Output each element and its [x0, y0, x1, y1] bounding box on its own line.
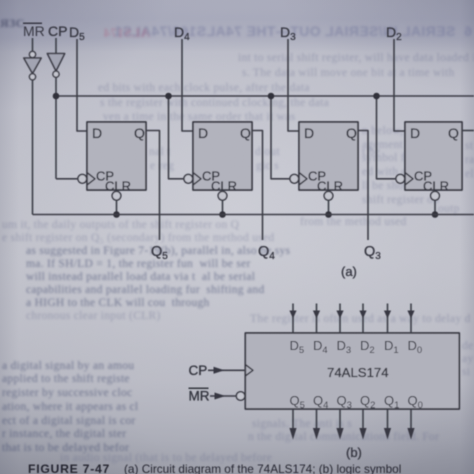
svg-text:D: D	[198, 125, 208, 141]
wire CP tap to FF2	[169, 96, 184, 179]
wire CP bus (horizontal)	[56, 95, 474, 97]
wire CP tap to FF3	[271, 96, 290, 179]
pin Q0 output arrow	[407, 409, 414, 440]
flip-flop FF3 body	[299, 122, 358, 194]
svg-text:(b): (b)	[346, 445, 362, 460]
wire D4 to FF2 D	[182, 39, 193, 131]
svg-text:D: D	[92, 125, 102, 141]
inverter U1 triangle	[24, 58, 41, 74]
pin D3 input arrow	[336, 304, 343, 334]
inverter U2 output bubble	[53, 71, 59, 77]
pin D1 input arrow	[384, 304, 391, 334]
node MR input label	[23, 23, 45, 40]
FF3 clock bubble	[290, 174, 299, 183]
pin Q1 output arrow	[384, 409, 391, 440]
junction FF4 CLR on bus	[432, 211, 439, 218]
inverter U2 (CP buffer) triangle	[47, 54, 64, 72]
FF4 clock bubble	[396, 174, 405, 183]
pin D4 input arrow	[313, 304, 320, 334]
wire D3 to FF3 D	[288, 39, 299, 131]
pin labels Q5-Q0	[290, 393, 423, 411]
wire FF1 CLR to bus	[116, 200, 118, 214]
junction FF3 CLR on bus	[325, 211, 332, 218]
flip-flop FF1 body	[87, 122, 146, 194]
svg-text:(a) Circuit diagram of the 74A: (a) Circuit diagram of the 74ALS174; (b)…	[124, 462, 401, 474]
wire CP feed to FF1	[56, 178, 78, 180]
pin CP input of U3	[189, 363, 254, 378]
svg-text:Q: Q	[134, 125, 145, 141]
svg-text:FIGURE 7-47: FIGURE 7-47	[28, 462, 110, 474]
pin labels D5-D0	[290, 338, 423, 356]
junction FF2 CLR on bus	[219, 211, 226, 218]
FF3 CLR bubble	[324, 191, 333, 200]
svg-text:MR: MR	[189, 389, 210, 404]
caption FIGURE 7-47	[28, 462, 401, 474]
wire FF3 Q to Q3	[358, 131, 368, 241]
inverter U1 (MR buffer) input bubble	[29, 51, 35, 57]
wire FF4 CLR to bus	[434, 200, 436, 214]
wire FF3 CLR to bus	[328, 200, 330, 214]
wire CP label to inverter input	[55, 38, 57, 54]
pin D5 input arrow	[289, 304, 296, 334]
flip-flop FF4 body	[405, 122, 462, 194]
inverter U1 output bubble	[29, 74, 35, 80]
pin D0 input arrow	[407, 304, 414, 334]
wire D2 to FF4 D	[394, 39, 405, 131]
right fragments beside logic symbol	[462, 340, 474, 352]
corner smudge top-left	[0, 16, 25, 31]
pin Q2 output arrow	[359, 409, 366, 440]
pin MR input of U3	[189, 388, 245, 404]
svg-text:74ALS174: 74ALS174	[327, 365, 389, 380]
svg-text:D: D	[410, 125, 420, 141]
wire FF2 Q to Q4	[252, 131, 263, 241]
wire FF1 Q to Q5	[146, 131, 160, 241]
svg-text:CP: CP	[48, 23, 67, 39]
FF2 CLR bubble	[218, 191, 227, 200]
pin Q5 output arrow	[289, 409, 296, 440]
junction CP bus at inverter	[53, 93, 60, 100]
FF4 CLR bubble	[431, 191, 440, 200]
wire CLR bus (horizontal)	[33, 214, 474, 216]
wire MR label to inverter input	[32, 38, 34, 52]
wire FF4 Q to right edge	[462, 130, 474, 132]
svg-text:Q: Q	[240, 125, 251, 141]
svg-text:Q3: Q3	[364, 244, 381, 262]
faint body text (scan bleed / blurred print)	[238, 52, 474, 64]
svg-text:D: D	[304, 125, 314, 141]
junction CP bus FF3 tap	[268, 93, 275, 100]
svg-text:Q5: Q5	[151, 244, 168, 262]
wire CP tap to FF4	[377, 96, 396, 179]
FF1 clock bubble	[78, 174, 87, 183]
wire CP inverter output down to FF1 clock	[55, 77, 57, 179]
svg-text:Q4: Q4	[258, 244, 275, 262]
junction CP bus FF2 tap	[165, 93, 172, 100]
svg-text:MR: MR	[23, 23, 45, 39]
left paragraph beside logic symbol	[2, 360, 188, 372]
wire MR inverter output down to CLR bus	[32, 80, 34, 215]
IC U3 74ALS174 body	[245, 333, 459, 409]
FF2 clock bubble	[184, 174, 193, 183]
junction CP bus FF4 tap	[373, 93, 380, 100]
pin Q3 output arrow	[336, 409, 343, 440]
mirrored bleed-through heading from reverse page	[92, 23, 472, 39]
wire FF2 CLR to bus	[222, 200, 224, 214]
pin Q4 output arrow	[313, 409, 320, 440]
flip-flop FF2 body	[193, 122, 252, 194]
FF1 CLR bubble	[112, 191, 121, 200]
svg-text:Q: Q	[346, 125, 357, 141]
faint inter-box print fragments	[149, 146, 191, 158]
svg-text:(a): (a)	[341, 264, 357, 279]
pin D2 input arrow	[359, 304, 366, 334]
junction FF1 CLR on bus	[113, 211, 120, 218]
svg-text:Q: Q	[448, 125, 459, 141]
wire D5 to FF1 D	[77, 39, 87, 131]
svg-text:CP: CP	[189, 363, 208, 378]
